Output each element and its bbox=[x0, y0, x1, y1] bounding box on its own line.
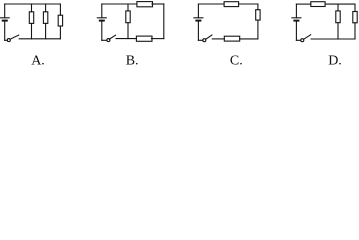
switch S4: blade bbox=[304, 35, 311, 40]
battery G3: long plate bbox=[194, 17, 203, 19]
resistor R2 bbox=[43, 12, 47, 24]
circuit B bbox=[97, 2, 164, 42]
svg-text:A.: A. bbox=[31, 54, 45, 69]
wire: A bottom wire bbox=[19, 38, 60, 40]
wire: B bottom wire right bbox=[151, 38, 163, 40]
battery G2: short plate bbox=[100, 20, 104, 22]
wire: R4 bottom stub bbox=[127, 23, 129, 39]
battery G1: long plate bbox=[0, 17, 9, 19]
resistor R9 (bottom) bbox=[224, 36, 239, 41]
resistor R7 (top) bbox=[224, 2, 239, 7]
wire: R2 bottom stub bbox=[45, 23, 47, 38]
wire: C top wire left bbox=[198, 3, 224, 5]
battery G3: short plate bbox=[196, 20, 200, 22]
resistor R5 (top) bbox=[137, 2, 153, 7]
wire: B bottom wire left bbox=[116, 38, 136, 40]
wire: C bottom wire right bbox=[240, 38, 258, 40]
wire: D top wire right bbox=[325, 3, 355, 5]
wire: D bottom wire bbox=[311, 38, 355, 40]
wire: D bottom-left stub bbox=[296, 39, 300, 41]
resistor R1 bbox=[29, 12, 33, 24]
battery G1: short plate bbox=[3, 20, 7, 22]
svg-text:C.: C. bbox=[230, 54, 243, 69]
wire: R2 top stub bbox=[45, 4, 47, 12]
wire: C right wire upper bbox=[257, 4, 259, 10]
wire: C bottom wire left bbox=[212, 38, 224, 40]
wire: C left wire upper bbox=[197, 4, 199, 18]
wire: D top wire left bbox=[296, 3, 310, 5]
resistor R3 (right branch) bbox=[58, 15, 62, 26]
switch S1: blade bbox=[10, 35, 19, 39]
wire: B left wire upper bbox=[101, 4, 103, 18]
wire: R4 top stub bbox=[127, 4, 129, 11]
wire: B top wire left bbox=[102, 3, 137, 5]
wire: C left wire lower bbox=[197, 21, 199, 41]
resistor R12 (right branch) bbox=[353, 12, 357, 23]
circuit A bbox=[0, 4, 62, 42]
switch S1: pivot circle bbox=[7, 39, 10, 42]
wire: C right wire lower bbox=[257, 20, 259, 39]
switch S2: blade bbox=[109, 35, 115, 39]
resistor R10 (top) bbox=[311, 2, 325, 7]
wire: D right wire lower bbox=[354, 23, 356, 39]
wire: R1 top stub bbox=[31, 4, 33, 12]
battery G2: long plate bbox=[97, 17, 106, 19]
switch S3: blade bbox=[206, 35, 212, 39]
wire: D left wire lower bbox=[295, 21, 297, 41]
wire: B top wire right bbox=[152, 3, 164, 5]
resistor R11 (middle branch) bbox=[336, 11, 340, 23]
wire: A left wire upper bbox=[4, 4, 6, 18]
resistor R8 (right branch) bbox=[256, 10, 260, 20]
wire: R11 top stub bbox=[337, 4, 339, 11]
switch S2: pivot circle bbox=[107, 39, 110, 42]
wire: C bottom-left stub bbox=[198, 39, 202, 41]
resistor R4 (middle branch) bbox=[126, 11, 130, 23]
wire: A right wire lower bbox=[59, 26, 61, 39]
battery G4: short plate bbox=[294, 20, 298, 22]
wire: A top wire bbox=[5, 3, 61, 5]
wire: D right wire upper bbox=[354, 4, 356, 11]
battery G4: long plate bbox=[292, 17, 301, 19]
wire: C top wire right bbox=[239, 3, 258, 5]
wire: B bottom-left stub bbox=[102, 39, 107, 41]
svg-text:B.: B. bbox=[126, 54, 139, 69]
circuit C bbox=[194, 2, 260, 42]
circuit D bbox=[292, 2, 357, 42]
wire: B right wire bbox=[163, 4, 165, 39]
wire: D left wire upper bbox=[295, 4, 297, 18]
resistor R6 (bottom) bbox=[136, 36, 152, 41]
wire: R1 bottom stub bbox=[31, 23, 33, 38]
switch S4: pivot circle bbox=[301, 39, 304, 42]
wire: B left wire lower bbox=[101, 21, 103, 41]
wire: R11 bottom stub bbox=[337, 23, 339, 39]
wire: A bottom-left stub bbox=[5, 39, 8, 41]
wire: A right wire upper bbox=[59, 4, 61, 15]
switch S3: pivot circle bbox=[203, 39, 206, 42]
wire: A left wire lower bbox=[4, 21, 6, 41]
svg-text:D.: D. bbox=[328, 54, 342, 69]
